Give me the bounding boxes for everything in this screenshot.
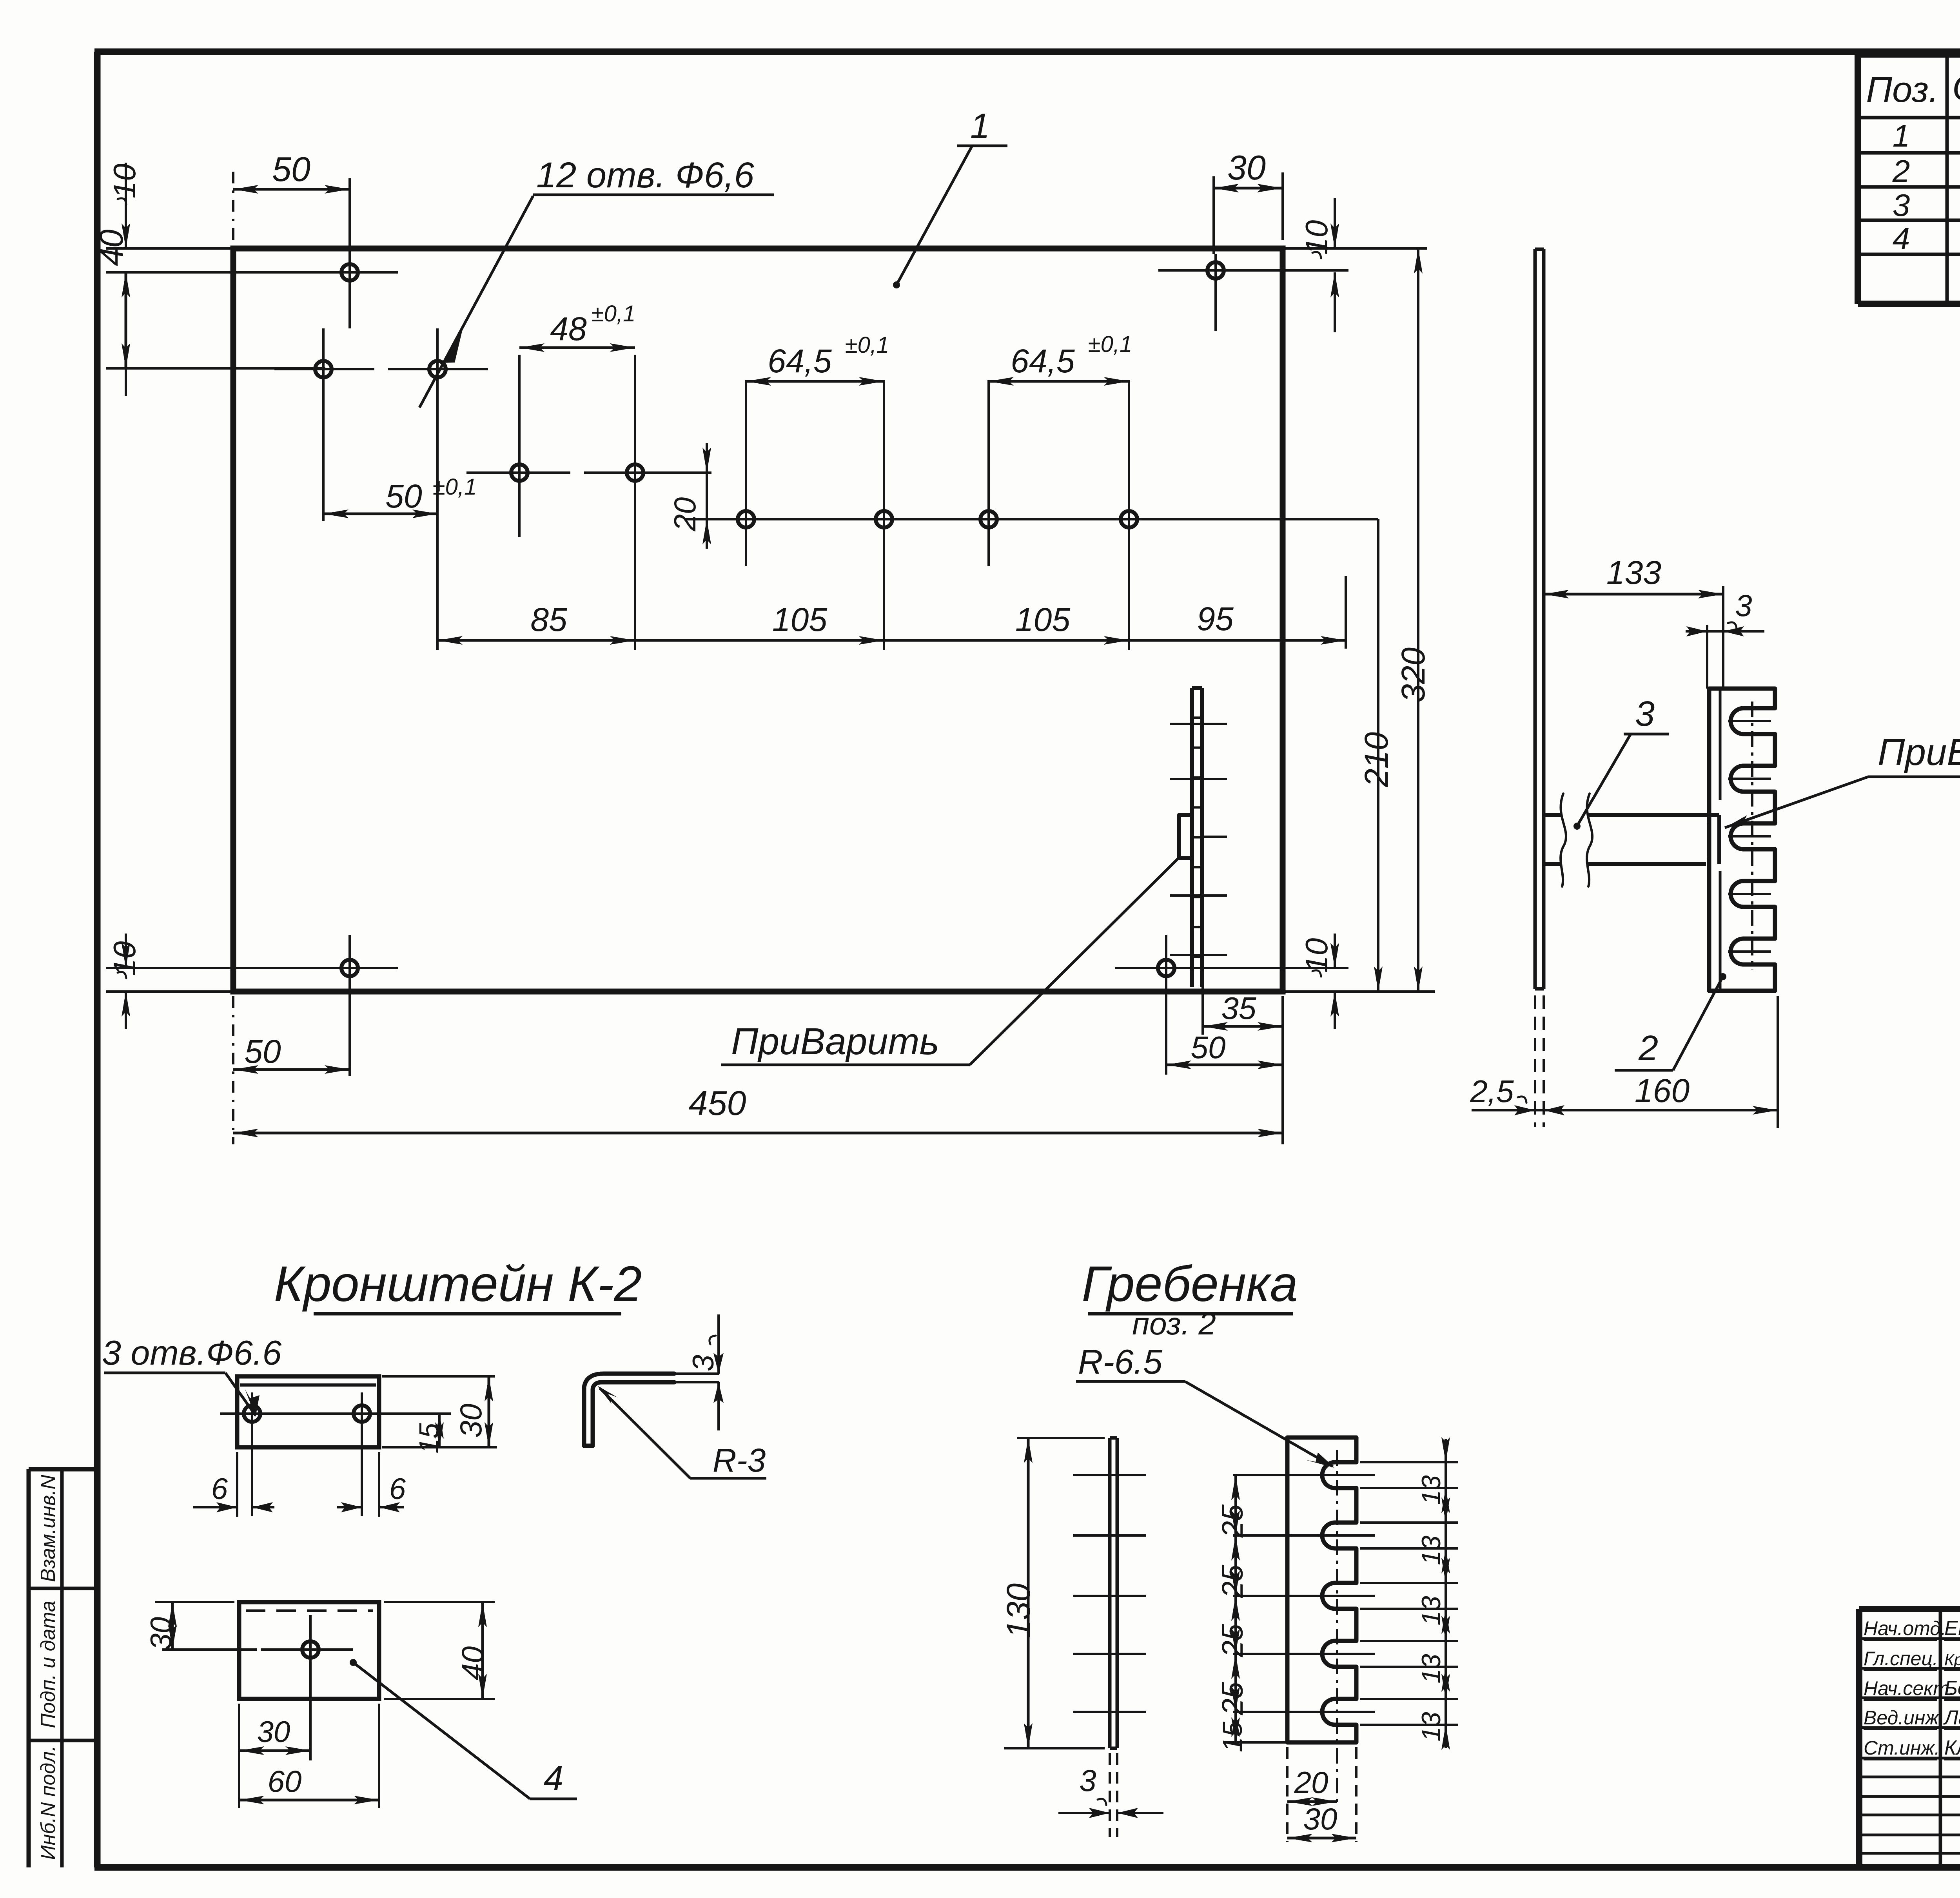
svg-text:450: 450 [689,1084,746,1122]
svg-text:50: 50 [272,150,310,189]
svg-text:40: 40 [93,229,130,266]
svg-text:105: 105 [1015,601,1070,638]
svg-text:40: 40 [455,1646,490,1680]
svg-text:15: 15 [1217,1721,1248,1752]
svg-text:Кронштейн К-2: Кронштейн К-2 [274,1256,642,1312]
svg-text:±0,1: ±0,1 [1088,332,1132,357]
svg-text:Обозначение: Обозначение [1952,68,1960,108]
svg-text:30: 30 [257,1715,290,1749]
svg-text:4: 4 [544,1759,563,1798]
svg-text:35: 35 [1221,991,1256,1026]
svg-text:±0,1: ±0,1 [592,301,635,326]
svg-text:Инб.N подл.: Инб.N подл. [37,1746,60,1860]
svg-text:320: 320 [1395,647,1432,702]
svg-text:10: 10 [107,941,142,976]
svg-text:30: 30 [1303,1802,1338,1836]
svg-text:2,5: 2,5 [1470,1074,1514,1109]
svg-text:48: 48 [550,310,587,347]
svg-text:10: 10 [1299,220,1334,255]
svg-text:95: 95 [1197,600,1234,637]
svg-text:133: 133 [1606,554,1661,591]
svg-text:2: 2 [1638,1029,1658,1068]
svg-text:30: 30 [1227,148,1266,187]
svg-text:Нач.отд.: Нач.отд. [1864,1617,1946,1639]
svg-text:64,5: 64,5 [768,343,832,379]
svg-text:2: 2 [1892,154,1910,189]
svg-text:6: 6 [389,1472,406,1506]
svg-text:60: 60 [268,1764,302,1798]
svg-text:210: 210 [1358,732,1395,787]
svg-text:50: 50 [1191,1030,1226,1065]
svg-text:поз. 2: поз. 2 [1132,1306,1216,1341]
svg-text:25: 25 [1216,1624,1249,1657]
svg-text:160: 160 [1635,1072,1690,1109]
svg-text:Ст.инж.: Ст.инж. [1864,1737,1940,1759]
svg-text:64,5: 64,5 [1011,343,1075,379]
svg-text:R-6.5: R-6.5 [1078,1342,1163,1381]
svg-text:3: 3 [1079,1763,1096,1798]
svg-text:1: 1 [970,107,990,146]
svg-text:Подп. и дата: Подп. и дата [37,1601,60,1728]
svg-text:13: 13 [1416,1475,1446,1505]
svg-text:13: 13 [1416,1596,1446,1626]
svg-text:130: 130 [1000,1583,1037,1638]
svg-text:Вед.инж.: Вед.инж. [1864,1707,1944,1729]
svg-text:Взам.инв.N: Взам.инв.N [37,1475,60,1582]
svg-text:30: 30 [454,1404,488,1438]
svg-text:105: 105 [772,601,827,638]
svg-text:20: 20 [668,497,702,532]
svg-text:25: 25 [1216,1564,1249,1598]
svg-text:Поз.: Поз. [1866,70,1938,110]
svg-text:10: 10 [1299,938,1334,973]
svg-text:ПриВарить: ПриВарить [731,1021,939,1062]
svg-text:13: 13 [1416,1654,1446,1684]
svg-text:85: 85 [530,601,567,638]
svg-text:30: 30 [145,1617,178,1650]
svg-text:R-3: R-3 [713,1442,766,1479]
svg-text:Нач.сект.: Нач.сект. [1864,1677,1955,1699]
svg-text:Гребенка: Гребенка [1082,1256,1298,1312]
svg-text:3: 3 [1735,588,1752,623]
svg-text:ЕВтушенко: ЕВтушенко [1944,1617,1960,1640]
svg-text:Гл.спец.: Гл.спец. [1864,1648,1938,1670]
svg-text:12 отв. Ф6,6: 12 отв. Ф6,6 [536,155,755,195]
svg-text:Лазаренко: Лазаренко [1943,1706,1960,1729]
svg-text:ПриВарить: ПриВарить [1878,731,1960,773]
svg-text:25: 25 [1216,1504,1249,1538]
svg-text:4: 4 [1893,221,1910,256]
svg-text:25: 25 [1216,1682,1249,1715]
svg-text:6: 6 [211,1472,228,1506]
svg-text:10: 10 [107,164,142,199]
svg-text:13: 13 [1416,1535,1446,1565]
svg-text:3 отв.Ф6.6: 3 отв.Ф6.6 [102,1333,281,1372]
svg-text:КрасташеВский: КрасташеВский [1944,1650,1960,1669]
svg-text:Клименко: Клименко [1944,1737,1960,1759]
svg-text:50: 50 [244,1033,281,1070]
svg-text:13: 13 [1416,1712,1446,1742]
svg-text:50: 50 [385,478,422,515]
svg-text:3: 3 [1893,188,1910,223]
svg-text:15: 15 [414,1423,444,1454]
svg-text:1: 1 [1893,118,1910,153]
svg-text:БорщёВ.: БорщёВ. [1944,1677,1960,1700]
svg-text:±0,1: ±0,1 [433,474,477,500]
svg-text:3: 3 [687,1355,720,1371]
svg-text:20: 20 [1294,1765,1328,1800]
svg-text:±0,1: ±0,1 [845,332,889,358]
svg-text:3: 3 [1635,694,1655,734]
